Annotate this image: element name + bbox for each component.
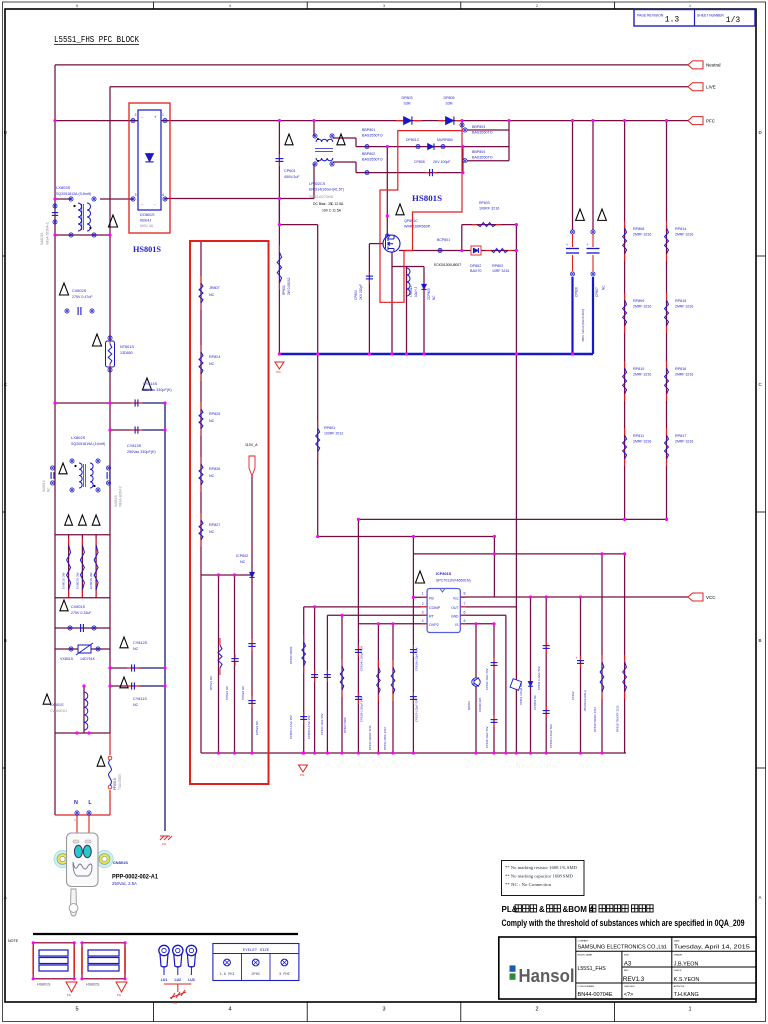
- svg-text:DC Bias : 25: DC Bias : 25: [313, 202, 332, 206]
- capacitor CP807: [598, 209, 607, 220]
- svg-text:-(50V/22uF(VAL)): -(50V/22uF(VAL)): [583, 690, 587, 712]
- svg-text:EYELET SIZE: EYELET SIZE: [243, 949, 270, 953]
- svg-text:HS801S: HS801S: [412, 193, 442, 203]
- svg-text:N: N: [74, 818, 76, 822]
- svg-text:B: B: [4, 638, 7, 643]
- svg-text:SA803S: SA803S: [40, 232, 44, 245]
- resistor RP813: [377, 660, 379, 667]
- svg-text:RP810: RP810: [633, 367, 644, 371]
- svg-text:RP813 360KF 3216: RP813 360KF 3216: [368, 725, 372, 750]
- wire vcc col 530: [530, 597, 532, 753]
- svg-text:ICP802: ICP802: [236, 554, 248, 558]
- svg-text:2KV 220pF: 2KV 220pF: [359, 284, 363, 300]
- svg-text:CP813 10uF 50V: CP813 10uF 50V: [320, 713, 324, 735]
- svg-text:CP822 NC: CP822 NC: [241, 685, 245, 700]
- ground PG mid bottom: [299, 765, 308, 772]
- wire cap row cp805: [356, 172, 463, 174]
- wire rt line: [327, 614, 427, 616]
- svg-text:NC: NC: [209, 293, 215, 297]
- hansol logo: [510, 965, 516, 971]
- svg-text:1: 1: [162, 113, 164, 117]
- wire vcc col 546: [545, 597, 547, 753]
- wire choke bottom row: [55, 234, 110, 236]
- zone ticks left/right: [3, 255, 6, 257]
- pin BCP801: [438, 248, 442, 252]
- svg-text:DP803: DP803: [402, 96, 413, 100]
- connector VCC: [688, 593, 703, 601]
- svg-text:LU1: LU1: [161, 978, 168, 982]
- capacitor CP818: [545, 706, 547, 711]
- wire ex col a: [68, 535, 70, 598]
- svg-text:3: 3: [135, 193, 137, 197]
- svg-text:ERDI14(160uH(41.5T): ERDI14(160uH(41.5T): [309, 188, 344, 192]
- svg-text:2MRF 3216: 2MRF 3216: [675, 373, 693, 377]
- svg-text:10uH J: 10uH J: [414, 286, 418, 297]
- svg-text:HS802S: HS802S: [86, 983, 100, 987]
- svg-text:QD801: QD801: [467, 701, 471, 710]
- svg-text:100: 100: [322, 209, 328, 213]
- diode ICP802: [249, 572, 254, 577]
- svg-text:14D751K: 14D751K: [80, 657, 96, 661]
- op-amp/controller ICP801S: [415, 571, 424, 583]
- svg-text:SHEET NUMBER: SHEET NUMBER: [697, 14, 724, 18]
- svg-text:QP601C: QP601C: [404, 219, 418, 223]
- svg-text:1.6 PHI: 1.6 PHI: [219, 973, 234, 977]
- svg-text:RP801: RP801: [324, 426, 335, 430]
- capacitor CY812S: [120, 637, 128, 648]
- svg-text:7: 7: [464, 602, 466, 606]
- svg-text:ICP801S: ICP801S: [436, 572, 452, 576]
- diode DP802: [471, 246, 481, 255]
- wire cp806 vertical: [572, 121, 574, 230]
- zener ZCP803: [421, 284, 426, 289]
- capacitor CY813S: [131, 429, 136, 431]
- wire rp819 column: [601, 554, 603, 753]
- wire rp601 vertical seg: [278, 199, 280, 225]
- svg-text:1: 1: [422, 592, 424, 596]
- svg-text:DO801S: DO801S: [140, 213, 155, 217]
- svg-text:2MRF 3216: 2MRF 3216: [633, 440, 651, 444]
- wire cp805 join: [462, 147, 464, 173]
- svg-text:ZCP802 NC: ZCP802 NC: [533, 695, 537, 710]
- wire nc box inner row: [201, 574, 252, 576]
- svg-text:NC: NC: [209, 474, 215, 478]
- wire N pin stub: [76, 815, 78, 833]
- wire live rail: [110, 86, 688, 88]
- wire rp603 loop left: [461, 225, 463, 251]
- resistor RP816: [666, 361, 668, 368]
- svg-text:VCC: VCC: [706, 595, 716, 600]
- wire gate row: [369, 243, 383, 245]
- svg-text:RP826: RP826: [209, 467, 220, 471]
- svg-text:MURF860: MURF860: [437, 138, 453, 142]
- wire nc col3: [251, 476, 253, 753]
- resistor JR807: [200, 276, 202, 283]
- resistor RP812: [392, 660, 394, 667]
- resistor RP825: [200, 402, 202, 409]
- resistor RP808: [624, 221, 626, 228]
- wire is col 494: [493, 624, 495, 753]
- wire gnd line: [460, 614, 506, 616]
- wire navy cy814: [141, 402, 165, 404]
- varistor VX801S: [69, 647, 73, 651]
- varistor VP801: [510, 679, 522, 691]
- svg-text:COMP: COMP: [429, 606, 441, 610]
- wire lr801 vertical: [406, 267, 408, 355]
- diode BBP801: [365, 145, 369, 149]
- svg-text:CP814H 220pF 50V: CP814H 220pF 50V: [360, 646, 364, 671]
- svg-text:COMPANY: COMPANY: [578, 939, 589, 942]
- svg-text:DATE: DATE: [674, 939, 680, 942]
- svg-text:RP818 750KRF 3216: RP818 750KRF 3216: [616, 705, 620, 732]
- resistor RP827: [200, 513, 202, 520]
- wire navy cy812: [141, 667, 165, 669]
- transformer LX803S common-mode choke: [69, 197, 73, 201]
- svg-text:2: 2: [135, 113, 137, 117]
- wire ovp divider row W1: [358, 518, 666, 520]
- svg-text:MODEL NAME: MODEL NAME: [578, 954, 593, 957]
- wire is line: [460, 623, 494, 625]
- svg-text:3: 3: [382, 1007, 385, 1013]
- svg-text:450V 120uF(CE16-500): 450V 120uF(CE16-500): [581, 309, 585, 342]
- wire gnd col 505: [505, 615, 507, 753]
- svg-text:Vcc: Vcc: [453, 596, 459, 600]
- svg-text:VP801 100uA NC: VP801 100uA NC: [519, 683, 523, 705]
- wire mosfet drain: [386, 147, 388, 236]
- svg-text:EX803S 3W: EX803S 3W: [89, 572, 93, 589]
- svg-text:BAS3550TO: BAS3550TO: [472, 156, 493, 160]
- resistor RP601: [278, 245, 280, 252]
- capacitor CP813: [326, 670, 328, 675]
- svg-text:4: 4: [228, 1007, 231, 1013]
- capacitor CP819: [493, 715, 495, 720]
- svg-text:RP809: RP809: [633, 299, 644, 303]
- diode BBP802: [365, 171, 369, 175]
- svg-text:2MRF 3216: 2MRF 3216: [633, 233, 651, 237]
- ground under lugs: [170, 990, 186, 999]
- wire cy row2: [110, 429, 141, 431]
- svg-text:BAX70: BAX70: [470, 269, 481, 273]
- svg-text:K.S.YEON: K.S.YEON: [674, 977, 700, 983]
- svg-text:EX801S 3W: EX801S 3W: [62, 572, 66, 589]
- svg-text:RP824: RP824: [209, 355, 220, 359]
- wire x317 upper: [317, 225, 319, 354]
- svg-text:CP807: CP807: [595, 287, 599, 297]
- svg-text:BAS3550TO: BAS3550TO: [362, 134, 383, 138]
- svg-text:332411027OND: 332411027OND: [309, 195, 334, 199]
- junction dots: [53, 119, 56, 122]
- wire is col 476: [475, 624, 477, 753]
- svg-text:C 11.5A: C 11.5A: [329, 209, 342, 213]
- svg-text:LU2: LU2: [175, 978, 182, 982]
- capacitor CP806: [576, 209, 585, 220]
- wire vx row: [55, 648, 110, 650]
- capacitor CP817H: [412, 692, 414, 697]
- svg-text:DP802: DP802: [470, 264, 481, 268]
- svg-text:NC: NC: [133, 647, 139, 651]
- svg-text:B: B: [759, 638, 762, 643]
- svg-text:REV1.3: REV1.3: [623, 976, 645, 983]
- svg-text:4: 4: [229, 4, 231, 8]
- connector PFC: [688, 117, 703, 125]
- svg-text:+: +: [566, 243, 568, 247]
- svg-text:OUT: OUT: [451, 606, 458, 610]
- svg-text:NC: NC: [47, 487, 51, 492]
- svg-text:A3: A3: [624, 962, 632, 968]
- wire navy cy813: [141, 429, 165, 431]
- svg-text:VBSA-501MA-C: VBSA-501MA-C: [46, 221, 50, 245]
- svg-text:PG: PG: [300, 773, 305, 777]
- svg-text:CP818 0.22uF 50V: CP818 0.22uF 50V: [549, 724, 553, 748]
- wire W3 row: [413, 553, 624, 555]
- svg-text:Comply with the threshold of s: Comply with the threshold of substances …: [502, 918, 745, 928]
- resistor RP818: [624, 655, 626, 662]
- wire vcc rail: [460, 596, 688, 598]
- wire zcp803 vertical: [423, 267, 425, 355]
- svg-text:RP819 56KRF 3216: RP819 56KRF 3216: [593, 707, 597, 732]
- resistor RP823: [341, 659, 343, 666]
- capacitor CP816H: [412, 645, 414, 650]
- svg-text:CY813S: CY813S: [127, 444, 142, 448]
- svg-text:SPC7011F(FA5591N): SPC7011F(FA5591N): [436, 579, 471, 583]
- wire gate cap vertical: [368, 244, 370, 354]
- svg-text:BBP804: BBP804: [472, 150, 485, 154]
- wire ex top row: [55, 534, 110, 536]
- svg-text:250Vac 330pF(K): 250Vac 330pF(K): [143, 388, 172, 392]
- wire nc col1: [218, 575, 220, 753]
- resistor RP817: [666, 428, 668, 435]
- capacitor CP814H: [357, 645, 359, 650]
- svg-text:DP801C: DP801C: [406, 138, 420, 142]
- svg-text:CP811 0.22uF 50V: CP811 0.22uF 50V: [537, 666, 541, 690]
- wire chain1 vertical: [624, 121, 626, 520]
- svg-text:DRAWN: DRAWN: [674, 954, 683, 957]
- svg-text:NC: NC: [602, 285, 606, 290]
- svg-text:JR807: JR807: [209, 286, 220, 290]
- wire neutral rail: [55, 64, 688, 66]
- svg-text:SIZE: SIZE: [624, 955, 629, 957]
- svg-text:SA802S: SA802S: [114, 495, 118, 507]
- svg-text:ZCP803: ZCP803: [427, 288, 431, 300]
- resistors EX801S EX802S EX803S: [65, 515, 73, 525]
- wire lp802 sec top: [333, 137, 356, 139]
- wire nl box: [55, 732, 110, 734]
- svg-text:PAGE REVISION: PAGE REVISION: [637, 14, 664, 18]
- wire ex col c: [95, 535, 97, 598]
- wire choke to bridge: [100, 198, 133, 200]
- wire navy vertical: [164, 403, 166, 831]
- svg-text:4: 4: [422, 619, 424, 623]
- svg-text:SQ2051819A (14mH): SQ2051819A (14mH): [71, 442, 105, 446]
- svg-text:CP810 10uF 50V: CP810 10uF 50V: [485, 668, 489, 690]
- wire col 393: [392, 624, 394, 753]
- svg-text:FG: FG: [173, 1001, 177, 1005]
- svg-text:L55S1_FHS PFC BLOCK: L55S1_FHS PFC BLOCK: [54, 34, 139, 45]
- wire ex col b: [81, 535, 83, 598]
- svg-text:CP808 0.47uF 25V: CP808 0.47uF 25V: [307, 715, 311, 739]
- svg-text:100RF 3216: 100RF 3216: [479, 207, 499, 211]
- inductor LX801S: [84, 692, 88, 730]
- connector Neutral: [688, 61, 703, 69]
- svg-text:RP825: RP825: [209, 412, 220, 416]
- svg-text:5: 5: [464, 619, 466, 623]
- heatsink HS801S symbol: [33, 943, 74, 979]
- capacitor CP808: [314, 670, 316, 675]
- bridge rectifier DO801S: [138, 110, 161, 210]
- heatsink HS801S outline: [380, 131, 462, 303]
- svg-text:CP815H 220pF 50V: CP815H 220pF 50V: [360, 697, 364, 722]
- svg-text:C 12.5A: C 12.5A: [331, 202, 344, 206]
- svg-text:** No marking resistor 1608 1%: ** No marking resistor 1608 1% SMD: [505, 866, 577, 870]
- svg-text:NOTE: NOTE: [8, 939, 19, 943]
- capacitor SA801S: [59, 463, 67, 474]
- svg-text:CP806: CP806: [575, 287, 579, 297]
- svg-text:PG: PG: [276, 370, 281, 374]
- svg-text:A: A: [759, 895, 762, 900]
- wire lx801 col: [83, 686, 85, 733]
- wire bbp804 row: [467, 160, 509, 162]
- svg-text:BBP802: BBP802: [362, 152, 375, 156]
- wire bridge out row: [165, 198, 314, 200]
- wire chain2 vertical: [666, 121, 668, 520]
- capacitor CP810: [493, 658, 495, 663]
- resistor RP809: [624, 293, 626, 300]
- connector LIVE: [688, 83, 703, 91]
- svg-text:DP805: DP805: [444, 96, 455, 100]
- svg-text:T.H.KANG: T.H.KANG: [674, 992, 699, 998]
- svg-text:-: -: [86, 819, 87, 822]
- svg-text:250Vac 330pF(K): 250Vac 330pF(K): [127, 450, 156, 454]
- svg-text:L55S1_FHS: L55S1_FHS: [578, 966, 607, 972]
- svg-text:RP802: RP802: [492, 264, 503, 268]
- svg-text:WMF160R560P: WMF160R560P: [404, 225, 431, 229]
- svg-text:275V 0.33uF: 275V 0.33uF: [71, 611, 92, 615]
- wire lp802 top pin: [313, 121, 315, 136]
- svg-text:CV04001IJ: CV04001IJ: [50, 709, 67, 713]
- wire col 378: [377, 624, 379, 753]
- svg-text:BAS3550TO: BAS3550TO: [472, 131, 493, 135]
- svg-text:275V 0.47uF: 275V 0.47uF: [72, 295, 93, 299]
- svg-text:PPP-0002-002-A1: PPP-0002-002-A1: [112, 874, 159, 881]
- svg-text:GND: GND: [451, 614, 459, 618]
- wire bbp803 row: [467, 129, 509, 131]
- svg-text:2: 2: [422, 602, 424, 606]
- svg-text:LX802S: LX802S: [71, 435, 86, 440]
- capacitor SA803S on left rail: [53, 204, 57, 208]
- svg-text:RP808: RP808: [633, 227, 644, 231]
- svg-text:RP823 56KF: RP823 56KF: [343, 717, 347, 733]
- svg-text:13D650: 13D650: [120, 351, 133, 355]
- svg-text:1: 1: [689, 4, 691, 8]
- connector CN801S graphic: [54, 850, 71, 867]
- transistor QD801: [472, 678, 480, 686]
- svg-text:ECIG01200U800T: ECIG01200U800T: [434, 263, 461, 267]
- wire lp802 sec bottom: [333, 161, 356, 163]
- wire comp line: [304, 606, 427, 608]
- svg-text:CP819 10uF 50V: CP819 10uF 50V: [485, 726, 489, 748]
- wire nc left col: [200, 575, 202, 753]
- capacitor CP805: [425, 172, 430, 174]
- capacitor CP815H: [357, 692, 359, 697]
- svg-text:RP601: RP601: [282, 285, 286, 295]
- svg-text:N: N: [74, 800, 78, 806]
- svg-text:2MRF 3216: 2MRF 3216: [675, 440, 693, 444]
- resistor RP801: [317, 421, 319, 428]
- svg-text:FG: FG: [162, 842, 167, 846]
- svg-text:CP804: CP804: [354, 290, 358, 300]
- wire nc col2: [234, 575, 236, 753]
- zone ticks bottom: [153, 1002, 155, 1022]
- wire x494 vertical: [493, 537, 495, 598]
- wire x317 row: [279, 224, 317, 226]
- wire out column: [515, 225, 517, 753]
- svg-text:** No marking capacitor 1608 S: ** No marking capacitor 1608 SMD: [505, 875, 573, 879]
- svg-text:5: 5: [76, 4, 78, 8]
- resistor RP810: [624, 361, 626, 368]
- svg-text:+: +: [154, 115, 157, 120]
- svg-text:RP820 680RF: RP820 680RF: [289, 646, 293, 664]
- svg-text:FG: FG: [67, 993, 71, 997]
- svg-text:SAMSUNG ELECTRONICS CO.,Ltd.: SAMSUNG ELECTRONICS CO.,Ltd.: [578, 945, 668, 951]
- diode DP803 lead stubs: [396, 120, 403, 122]
- wire cy812 row: [110, 667, 141, 669]
- svg-text:600V 4A: 600V 4A: [140, 224, 154, 228]
- wire lp802 bottom pin: [313, 164, 315, 199]
- wire bbp join vertical: [508, 121, 510, 161]
- svg-text:NC: NC: [209, 419, 215, 423]
- wire rp603 loop top: [462, 224, 517, 226]
- wire out line: [460, 606, 516, 608]
- svg-text:RP814: RP814: [675, 227, 686, 231]
- svg-text:LR801J: LR801J: [409, 286, 413, 297]
- zener ZCP802: [528, 681, 533, 686]
- inductor LR801J: [407, 268, 411, 296]
- svg-text:LU3: LU3: [188, 978, 195, 982]
- svg-text:LX801S: LX801S: [50, 703, 64, 707]
- svg-text:2KV 100pF: 2KV 100pF: [433, 160, 451, 164]
- diode DP803: [403, 116, 411, 124]
- svg-text:HS801S: HS801S: [37, 983, 51, 987]
- svg-text:5: 5: [75, 1007, 78, 1013]
- svg-text:A: A: [4, 895, 7, 900]
- svg-text:2MRF 3216: 2MRF 3216: [675, 305, 693, 309]
- svg-text:J.B.YEON: J.B.YEON: [674, 962, 699, 968]
- svg-text:CP821 NC: CP821 NC: [225, 685, 229, 700]
- svg-text:LX803S: LX803S: [56, 185, 71, 190]
- svg-text:HS801S: HS801S: [133, 245, 162, 254]
- svg-text:+: +: [587, 243, 589, 247]
- capacitor CP809: [303, 712, 305, 717]
- wire rt col 342: [341, 615, 343, 753]
- svg-text:S3M: S3M: [404, 102, 411, 106]
- resistor RP814: [666, 221, 668, 228]
- wire fb stub: [413, 596, 427, 598]
- svg-text:CP601: CP601: [284, 169, 296, 173]
- wire left vertical L: [109, 87, 111, 733]
- svg-text:VBSA-B01M-C: VBSA-B01M-C: [119, 485, 123, 507]
- wire comp col 303: [303, 607, 305, 753]
- svg-text:<?>: <?>: [624, 992, 633, 998]
- eyelet size table: [213, 944, 299, 981]
- svg-text:RP827: RP827: [209, 523, 220, 527]
- wire cy row1: [55, 402, 141, 404]
- resistor RP603: [472, 224, 477, 226]
- svg-text:100RF 2012: 100RF 2012: [324, 432, 343, 436]
- svg-text:2MRF 3216: 2MRF 3216: [633, 305, 651, 309]
- svg-text:2MRF 3216: 2MRF 3216: [675, 233, 693, 237]
- svg-text:3: 3: [422, 610, 424, 614]
- svg-text:OVP2: OVP2: [429, 623, 439, 627]
